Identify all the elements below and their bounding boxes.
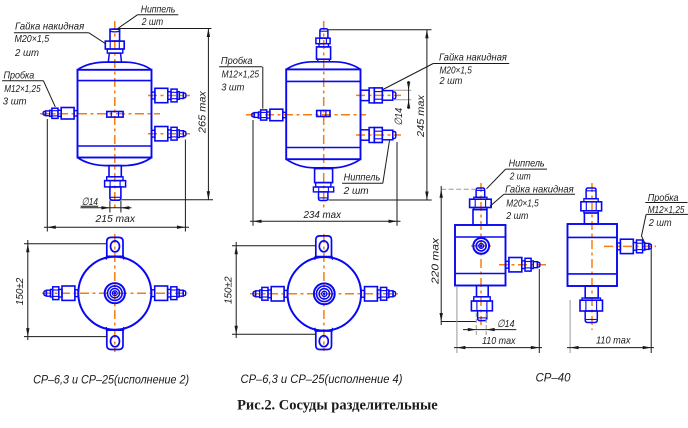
svg-text:Ниппель: Ниппель: [344, 171, 381, 183]
svg-text:110 max: 110 max: [596, 335, 631, 347]
svg-text:Пробка: Пробка: [221, 55, 253, 67]
svg-text:2 шт: 2 шт: [14, 47, 39, 59]
svg-text:Гайка накидная: Гайка накидная: [439, 51, 507, 63]
svg-text:2 шт: 2 шт: [505, 210, 528, 222]
svg-text:2 шт: 2 шт: [648, 217, 672, 229]
svg-text:150±2: 150±2: [14, 278, 26, 306]
svg-text:∅14: ∅14: [497, 318, 515, 330]
svg-text:234 max: 234 max: [303, 209, 342, 221]
svg-text:∅14: ∅14: [393, 108, 405, 126]
svg-text:Ниппель: Ниппель: [509, 158, 545, 170]
svg-text:245 max: 245 max: [415, 94, 427, 138]
svg-text:220 max: 220 max: [429, 237, 441, 285]
svg-text:Ниппель: Ниппель: [141, 4, 176, 16]
svg-text:265 max: 265 max: [196, 90, 208, 134]
svg-text:Гайка накидная: Гайка накидная: [505, 183, 574, 195]
svg-text:М12×1,25: М12×1,25: [4, 83, 41, 95]
svg-text:2 шт: 2 шт: [509, 171, 531, 183]
svg-text:СР–6,3 и СР–25(исполнение 2): СР–6,3 и СР–25(исполнение 2): [33, 375, 189, 387]
svg-text:215 max: 215 max: [95, 213, 136, 225]
svg-text:Рис.2. Сосуды разделительные: Рис.2. Сосуды разделительные: [237, 398, 438, 414]
svg-text:110 max: 110 max: [482, 335, 516, 347]
svg-text:2 шт: 2 шт: [343, 185, 369, 197]
svg-text:М20×1,5: М20×1,5: [506, 197, 539, 209]
svg-text:М20×1,5: М20×1,5: [15, 33, 50, 45]
svg-text:М12×1,25: М12×1,25: [222, 68, 260, 80]
svg-text:3 шт: 3 шт: [221, 82, 244, 94]
svg-text:СР–6,3 и СР–25(исполнение 4): СР–6,3 и СР–25(исполнение 4): [241, 374, 403, 386]
svg-text:Пробка: Пробка: [4, 70, 35, 82]
svg-text:Гайка накидная: Гайка накидная: [15, 21, 85, 33]
svg-text:2 шт: 2 шт: [439, 75, 463, 87]
svg-text:3 шт: 3 шт: [3, 95, 27, 107]
svg-text:СР–40: СР–40: [536, 373, 572, 385]
svg-text:2 шт: 2 шт: [141, 16, 163, 28]
svg-text:150±2: 150±2: [222, 276, 234, 304]
